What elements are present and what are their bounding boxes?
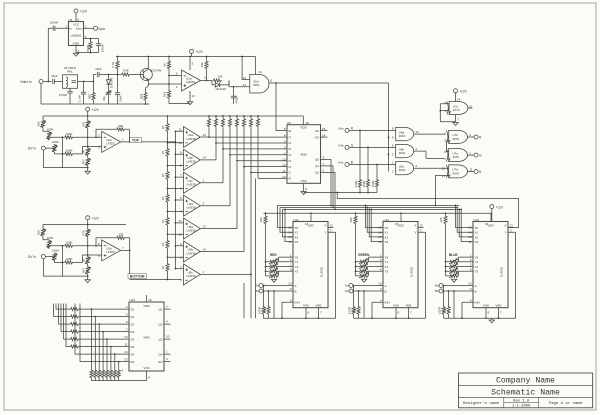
wire S2 input [59, 304, 130, 326]
svg-text:13: 13 [243, 76, 247, 80]
comparator U8b [167, 166, 245, 262]
gate U6c 4001 [392, 161, 449, 175]
comparator U8a [167, 160, 238, 239]
svg-text:10nF: 10nF [119, 95, 123, 102]
svg-text:+12V: +12V [459, 90, 467, 94]
svg-text:47K: 47K [81, 230, 85, 235]
resistor R21 100K [64, 240, 101, 247]
gate U7c 4070 [445, 101, 473, 114]
svg-text:X0: X0 [385, 226, 389, 230]
svg-text:1K: 1K [161, 243, 165, 247]
svg-text:I1: I1 [289, 171, 292, 175]
svg-text:16: 16 [305, 222, 309, 226]
svg-text:Y2: Y2 [385, 265, 389, 269]
resistor R23 100K [64, 254, 101, 264]
svg-text:X0: X0 [295, 226, 299, 230]
gate U7d 4070 [442, 165, 474, 178]
svg-text:DV In: DV In [28, 255, 36, 259]
svg-text:11: 11 [179, 219, 182, 223]
svg-text:E0: E0 [315, 129, 319, 133]
IC U13 4043 [124, 298, 164, 371]
resistor R12 100K [64, 132, 101, 139]
transistor Q1 BC547B [140, 57, 161, 86]
resistor R1 680K [86, 39, 92, 53]
svg-text:10K: 10K [259, 217, 263, 222]
svg-text:47K: 47K [81, 122, 85, 127]
svg-text:S4: S4 [131, 352, 135, 356]
IC U12 4052 GREEN [349, 213, 426, 319]
svg-text:VDD: VDD [397, 224, 404, 228]
svg-text:LM339: LM339 [187, 183, 197, 187]
svg-text:Y0: Y0 [295, 256, 299, 260]
trimmer R15 47K [81, 116, 90, 148]
svg-text:11: 11 [469, 168, 472, 172]
svg-text:EN: EN [158, 360, 162, 364]
wire bottom rail TOP section [43, 167, 87, 169]
resistor R30 100K pulldown [371, 165, 379, 193]
svg-text:2K: 2K [81, 150, 85, 154]
resistor R18 56K feedback [96, 124, 130, 143]
wire U7b pin5 link [447, 141, 449, 152]
svg-text:11: 11 [269, 79, 272, 83]
svg-text:U4c: U4c [338, 161, 344, 165]
trimmer R19 15K [36, 225, 49, 240]
wire R3 input [66, 304, 129, 349]
wire Q0 Q1 Q2 to bus [321, 156, 336, 211]
svg-text:X3: X3 [385, 240, 389, 244]
resistor R3 4.7K [111, 57, 119, 76]
wire bottom rail BOTTOM section [43, 275, 87, 277]
wire bus line 2 [280, 206, 457, 208]
svg-text:BC547B: BC547B [150, 69, 161, 73]
IC U10 4052 BLUE [439, 213, 516, 319]
wire rail P upper inputs [174, 131, 176, 268]
svg-text:EL4052: EL4052 [500, 266, 504, 277]
svg-text:13: 13 [442, 174, 446, 178]
wire pin13 riser [242, 57, 250, 80]
wire pin3 [84, 35, 99, 40]
trimmer R24 47K [81, 225, 90, 257]
op-amp U2b LF353 [98, 240, 124, 261]
svg-text:13: 13 [203, 224, 207, 228]
op-amp U1a LM319 [176, 57, 208, 102]
wire stub to video line [336, 192, 338, 199]
svg-text:16: 16 [395, 222, 399, 226]
svg-text:Y3: Y3 [475, 270, 479, 274]
wire S3 input [64, 304, 130, 341]
resistor RP2 [214, 115, 217, 143]
IC U9 4532 [282, 121, 320, 183]
svg-text:B: B [385, 289, 387, 293]
svg-text:12: 12 [282, 163, 286, 167]
svg-text:VEE: VEE [405, 303, 411, 307]
svg-text:+12V: +12V [195, 50, 203, 54]
wire BOTTOM output [121, 250, 182, 280]
wire pin14 to rail [255, 57, 257, 75]
svg-text:In: In [70, 26, 73, 30]
svg-text:12: 12 [243, 83, 247, 87]
power rail +12V lower [43, 216, 126, 226]
svg-text:4070: 4070 [452, 137, 459, 141]
svg-text:13: 13 [420, 223, 424, 227]
svg-text:33K: 33K [118, 232, 123, 236]
svg-text:1K: 1K [161, 174, 165, 178]
svg-text:Ra: Ra [255, 284, 259, 288]
svg-text:S2: S2 [131, 322, 135, 326]
terminal Sync output [84, 25, 106, 31]
svg-text:100R: 100R [438, 306, 442, 314]
comparator U3d [167, 154, 231, 216]
terminal B input [338, 161, 396, 167]
svg-text:X1: X1 [475, 231, 479, 235]
svg-text:100K: 100K [46, 127, 53, 131]
wire U1a output [201, 80, 213, 82]
wire node [109, 74, 122, 76]
svg-text:1K5: 1K5 [163, 92, 167, 98]
wire to gate [229, 81, 250, 88]
svg-text:680: 680 [87, 94, 91, 99]
svg-text:4001: 4001 [399, 134, 406, 138]
svg-text:GND: GND [73, 42, 81, 46]
capacitor C1 100nF [48, 21, 68, 31]
comparator U3b [167, 142, 217, 170]
svg-text:Q2: Q2 [315, 171, 319, 175]
svg-text:LM339: LM339 [187, 137, 197, 141]
svg-text:X: X [504, 224, 506, 228]
resistor ladder RL3 [161, 171, 169, 194]
svg-text:100K: 100K [46, 236, 53, 240]
svg-text:13: 13 [510, 223, 514, 227]
wire S4 input [75, 304, 129, 355]
resistor R27 33K feedback [96, 232, 131, 279]
resistor R8 10K [200, 57, 208, 82]
svg-text:4070: 4070 [453, 108, 460, 112]
svg-text:10: 10 [124, 335, 128, 339]
terminal B output [474, 170, 481, 175]
ground symbol [73, 53, 78, 56]
svg-text:X3: X3 [295, 240, 299, 244]
svg-text:Video In: Video In [20, 80, 32, 84]
svg-text:1K: 1K [161, 151, 165, 155]
svg-text:BLUE: BLUE [449, 253, 458, 257]
wire TOP output [121, 137, 177, 142]
resistor ladder RL2 [161, 148, 169, 171]
capacitor C3 47pF [51, 74, 62, 84]
svg-text:I6: I6 [289, 141, 292, 145]
resistor R28 100K pulldown [354, 130, 362, 193]
wire divider mid vertical [61, 137, 63, 167]
wire VSS return [91, 371, 150, 381]
svg-text:R1: R1 [131, 315, 135, 319]
svg-text:10: 10 [378, 282, 382, 286]
svg-text:100K: 100K [65, 240, 72, 244]
comparator U3a [167, 127, 210, 148]
svg-text:VSS: VSS [393, 303, 399, 307]
resistor R7 1K5 [163, 90, 190, 104]
svg-text:4001: 4001 [399, 168, 406, 172]
power +12V P1 [74, 9, 88, 22]
svg-text:2K: 2K [81, 259, 85, 263]
svg-text:14: 14 [258, 70, 262, 74]
ground symbol BLUE block [491, 318, 493, 320]
svg-text:Y2: Y2 [295, 265, 299, 269]
svg-text:Q2: Q2 [158, 322, 162, 326]
svg-text:Y1: Y1 [295, 260, 299, 264]
svg-text:11: 11 [282, 169, 285, 173]
svg-text:16: 16 [148, 298, 152, 302]
wire emitter to divider [148, 84, 169, 86]
svg-text:13: 13 [124, 358, 128, 362]
svg-text:LF353: LF353 [106, 250, 115, 254]
svg-text:Y0: Y0 [475, 256, 479, 260]
comparator U8c [167, 172, 252, 285]
svg-text:GREEN: GREEN [358, 253, 370, 257]
svg-text:VSS: VSS [303, 303, 309, 307]
resistor R6 2K [163, 57, 171, 91]
svg-text:B: B [295, 289, 297, 293]
svg-text:X2: X2 [475, 235, 479, 239]
IC U11 4052 RED [259, 213, 336, 319]
power rail +12V mux [264, 212, 492, 214]
svg-text:1K: 1K [161, 197, 165, 201]
wire from C1 down to video input line [47, 28, 49, 81]
svg-text:100K: 100K [52, 140, 59, 144]
svg-text:3.3nF: 3.3nF [77, 94, 81, 102]
resistor RP3 [221, 115, 224, 149]
svg-text:I3: I3 [289, 159, 292, 163]
resistor RP1 [207, 115, 210, 137]
resistor R5 68R [139, 86, 148, 105]
svg-text:16: 16 [485, 222, 489, 226]
terminal R input [338, 126, 396, 132]
resistor network RN1 pulldown row [90, 309, 124, 380]
resistor ladder RL7 [161, 263, 169, 279]
svg-text:A: A [295, 284, 297, 288]
wire video line [47, 81, 94, 83]
svg-text:100nF: 100nF [100, 44, 104, 53]
svg-text:4001: 4001 [253, 83, 260, 87]
svg-text:15K: 15K [217, 75, 222, 79]
capacitor C4 270pF [59, 88, 73, 104]
wire U7c input loop [439, 104, 459, 122]
svg-text:U13: U13 [130, 298, 136, 302]
svg-text:47pF: 47pF [51, 74, 58, 78]
svg-text:14: 14 [322, 133, 326, 137]
power rail +12V top [116, 49, 256, 57]
IC U5 LM1881 [69, 18, 84, 46]
trimmer R22 100K [52, 249, 64, 264]
svg-text:Ba: Ba [255, 289, 259, 293]
diode D2 1N4148 [212, 81, 229, 91]
svg-text:U12: U12 [384, 218, 390, 222]
svg-text:13: 13 [330, 223, 334, 227]
svg-text:16: 16 [306, 121, 310, 125]
svg-text:I5: I5 [289, 147, 292, 151]
svg-text:Q1: Q1 [158, 307, 162, 311]
wire gnd bus of U5 [76, 46, 99, 54]
svg-text:15: 15 [322, 127, 326, 131]
resistor R2 680 [87, 82, 95, 105]
wire up to 15pF [94, 75, 97, 82]
op-amp U2a LF353 [98, 131, 124, 152]
trimmer R17 4K7 [81, 158, 90, 172]
capacitor C2 100nF [96, 39, 105, 53]
wire EI loop [276, 83, 287, 131]
svg-text:U9: U9 [287, 121, 291, 125]
gate U6a 4001 [392, 127, 445, 141]
svg-text:3.9K: 3.9K [123, 69, 129, 73]
resistor R4 3.9K [121, 69, 140, 76]
svg-text:Y2: Y2 [475, 265, 479, 269]
svg-text:100K: 100K [65, 149, 72, 153]
power rail +12V mid [43, 107, 303, 117]
svg-text:EI: EI [289, 129, 292, 133]
resistor R29 100K pulldown [362, 147, 370, 193]
capacitor C8 10nF [115, 75, 123, 105]
svg-text:+12V: +12V [91, 108, 99, 112]
svg-text:A: A [475, 284, 477, 288]
wire ladder top [167, 116, 169, 123]
svg-text:Page # or name: Page # or name [549, 401, 583, 406]
terminal DV In 2 [28, 255, 55, 277]
resistor RP5 [235, 115, 238, 161]
svg-text:10: 10 [282, 175, 286, 179]
svg-text:10: 10 [415, 130, 419, 134]
wire input bus to 4532 [209, 137, 287, 178]
svg-text:40p: 40p [102, 96, 106, 101]
svg-text:12: 12 [204, 76, 208, 80]
svg-text:Ba: Ba [435, 284, 439, 288]
svg-text:4043: 4043 [143, 336, 150, 340]
svg-text:I0: I0 [289, 177, 292, 181]
wire R1 input [54, 304, 130, 319]
svg-text:Y1: Y1 [385, 260, 389, 264]
gate U7b 4070 [444, 130, 474, 143]
trimmer R11 100K [46, 127, 64, 140]
svg-text:EL4052: EL4052 [320, 266, 324, 277]
svg-text:15K: 15K [36, 230, 40, 235]
resistor ladder RL1 [161, 123, 169, 148]
terminal G input [338, 143, 396, 149]
power +12V U7c [454, 89, 468, 102]
wire sync to BLUE X pin [508, 198, 519, 227]
svg-text:13: 13 [203, 133, 207, 137]
svg-text:I2: I2 [289, 165, 292, 169]
gate U7a 4070 [444, 149, 474, 162]
svg-text:X: X [324, 224, 326, 228]
svg-text:GS: GS [315, 135, 319, 139]
wire pin16 stub [147, 295, 152, 302]
svg-text:U4a: U4a [338, 127, 344, 131]
svg-text:Rev 1.0: Rev 1.0 [513, 400, 530, 404]
svg-text:RED: RED [270, 253, 277, 257]
svg-text:LM339: LM339 [187, 206, 197, 210]
ground symbol under U1a [187, 102, 192, 105]
wire pin16 [302, 116, 304, 125]
resistor RP4 [228, 115, 231, 155]
svg-text:270pF: 270pF [59, 93, 68, 97]
resistor ladder RL4 [161, 194, 169, 217]
wire VSS pin8 to ground [301, 183, 307, 194]
terminal R output [474, 135, 482, 140]
svg-text:100K: 100K [52, 249, 59, 253]
svg-text:X2: X2 [295, 235, 299, 239]
svg-text:Designer's name: Designer's name [463, 401, 500, 406]
svg-text:470pF: 470pF [235, 95, 239, 104]
resistor ladder RL6 [161, 240, 169, 263]
comparator U3c [167, 148, 224, 193]
wire divider mid vertical [61, 246, 63, 276]
capacitor C5 3.3nF [77, 82, 86, 105]
svg-text:15K: 15K [36, 121, 40, 126]
capacitor C6 15pF [95, 67, 109, 77]
trimmer R26 4K7 [81, 266, 90, 280]
svg-text:12: 12 [442, 166, 446, 170]
svg-text:VSS: VSS [483, 303, 489, 307]
wire bus line 3 [283, 208, 462, 210]
wire bottom rail [41, 103, 150, 105]
svg-text:R2: R2 [131, 330, 135, 334]
svg-text:100K: 100K [65, 132, 72, 136]
wire Q output stubs [164, 305, 171, 362]
svg-text:U10: U10 [474, 218, 480, 222]
svg-text:Gb: Gb [345, 289, 349, 293]
svg-text:X0: X0 [475, 226, 479, 230]
gate U6d 4001 [243, 70, 273, 93]
svg-text:14: 14 [124, 350, 128, 354]
svg-text:4K7: 4K7 [81, 268, 85, 274]
svg-text:VDD: VDD [487, 224, 494, 228]
svg-text:U11: U11 [294, 218, 300, 222]
svg-text:4070: 4070 [452, 155, 459, 159]
terminal G output [474, 153, 482, 158]
svg-text:INH: INH [385, 301, 390, 305]
svg-text:11: 11 [124, 343, 127, 347]
svg-text:10: 10 [468, 282, 472, 286]
svg-text:100K: 100K [362, 180, 366, 187]
wire riser to U6 gates [388, 83, 390, 172]
svg-text:1-1-2000: 1-1-2000 [512, 405, 531, 409]
svg-text:10: 10 [288, 282, 292, 286]
svg-text:Bb: Bb [435, 289, 439, 293]
svg-text:A: A [385, 284, 387, 288]
svg-text:PAL: PAL [67, 69, 73, 73]
svg-text:Schematic Name: Schematic Name [491, 388, 560, 398]
svg-text:Ga: Ga [345, 284, 349, 288]
svg-text:14: 14 [457, 98, 461, 102]
wire X feed bends RED [278, 205, 294, 241]
svg-text:B: B [479, 170, 481, 174]
wire R4 input [80, 304, 129, 363]
svg-text:15K: 15K [349, 217, 353, 222]
resistor RP8 [256, 115, 259, 178]
svg-text:LF353: LF353 [106, 142, 115, 146]
svg-text:100R: 100R [258, 306, 262, 314]
svg-text:VSS: VSS [301, 179, 307, 183]
svg-text:1N4148: 1N4148 [110, 77, 114, 88]
svg-text:U4b: U4b [338, 144, 344, 148]
wire X feed taps GREEN [365, 205, 383, 242]
svg-text:10: 10 [166, 335, 170, 339]
wire U6d output long [269, 82, 389, 84]
svg-text:+12V: +12V [496, 205, 504, 209]
ground symbol [85, 171, 90, 174]
svg-text:4001: 4001 [399, 151, 406, 155]
svg-text:LM1881: LM1881 [71, 33, 82, 37]
wire E0 GS stubs [321, 127, 328, 138]
trimmer capacitor C7 40p [102, 91, 111, 104]
svg-text:S1: S1 [131, 307, 135, 311]
